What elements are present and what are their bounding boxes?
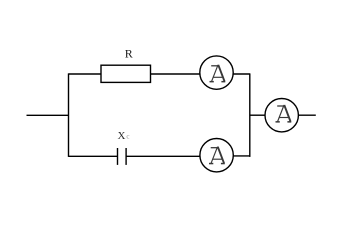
svg-text:R: R (125, 46, 133, 60)
svg-text:X: X (118, 130, 126, 142)
svg-text:c: c (126, 132, 129, 140)
